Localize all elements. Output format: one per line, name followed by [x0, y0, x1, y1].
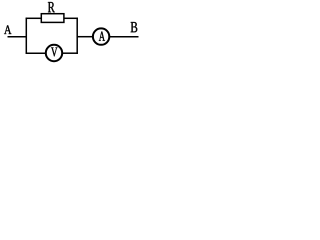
- resistor R1 value label R: [48, 2, 55, 12]
- wire right vertical branch: [76, 18, 78, 54]
- wire ammeter to B terminal: [109, 36, 138, 38]
- wire voltmeter to bottom-right corner: [62, 52, 78, 54]
- ammeter A body: [93, 28, 109, 44]
- node B label: [131, 22, 138, 32]
- wire right junction to ammeter: [77, 36, 93, 38]
- wire resistor to top-right corner: [64, 17, 78, 19]
- ammeter A label: [99, 32, 105, 41]
- voltmeter V body: [46, 45, 62, 61]
- wire from A to left junction: [8, 36, 28, 38]
- node A label: [4, 25, 11, 34]
- wire top-left to resistor: [26, 17, 42, 19]
- resistor R1 body: [41, 14, 64, 23]
- wire bottom-left to voltmeter: [26, 52, 46, 54]
- wire left vertical branch: [25, 18, 27, 54]
- voltmeter V label: [51, 47, 57, 56]
